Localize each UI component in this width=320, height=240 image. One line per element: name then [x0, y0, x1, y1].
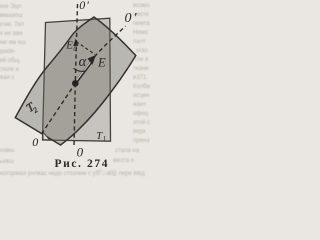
- svg-text:палт: палт: [133, 39, 146, 45]
- svg-text:реке Эцп: реке Эцп: [0, 4, 21, 10]
- svg-text:асцен: асцен: [133, 93, 149, 99]
- svg-text:Рис. 274: Рис. 274: [55, 158, 110, 170]
- svg-text:сине им еш: сине им еш: [0, 40, 26, 46]
- svg-text:инвмаапш: инвмаапш: [0, 13, 23, 19]
- svg-text:отни не ави: отни не ави: [0, 31, 22, 37]
- svg-text:мезта о: мезта о: [113, 158, 135, 164]
- svg-text:стиле н: стиле н: [0, 67, 19, 73]
- svg-text:возмо: возмо: [133, 3, 150, 9]
- svg-text:0: 0: [32, 135, 38, 149]
- svg-text:0′: 0′: [125, 11, 139, 26]
- svg-text:srau: srau: [136, 48, 148, 54]
- svg-text:ткани: ткани: [133, 66, 149, 72]
- svg-text:сватни. Тел: сватни. Тел: [0, 22, 25, 28]
- svg-text:Колба: Колба: [133, 84, 151, 90]
- svg-text:1: 1: [103, 135, 107, 143]
- svg-text:0′: 0′: [79, 0, 90, 12]
- svg-text:жает: жает: [133, 102, 146, 108]
- svg-text:прена: прена: [133, 138, 150, 144]
- svg-text:этой с: этой с: [133, 119, 150, 126]
- svg-text:0: 0: [73, 44, 77, 53]
- svg-text:котормая унлвас недо стозлим с: котормая унлвас недо стозлим с убিత址 пер…: [0, 169, 145, 177]
- svg-text:E: E: [65, 40, 73, 52]
- svg-text:верх: верх: [133, 129, 146, 135]
- svg-text:α: α: [79, 54, 87, 70]
- svg-text:бьевш: бьевш: [0, 159, 14, 165]
- svg-text:нах приdе-: нах приdе-: [0, 49, 16, 55]
- svg-text:ваи с: ваи с: [0, 75, 14, 81]
- svg-text:в371.: в371.: [133, 75, 148, 81]
- svg-text:тле в: тле в: [134, 57, 148, 63]
- svg-text:офиц: офиц: [133, 111, 149, 117]
- svg-text:ней общ: ней общ: [0, 57, 19, 64]
- svg-text:стала на: стала на: [115, 148, 140, 154]
- svg-text:навы: навы: [0, 148, 14, 154]
- svg-text:Немо: Немо: [133, 30, 149, 36]
- svg-text:E: E: [97, 56, 106, 70]
